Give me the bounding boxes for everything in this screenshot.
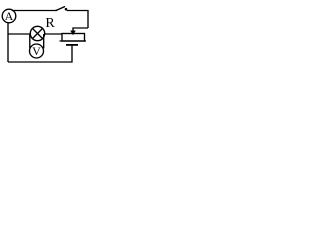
svg-text:R: R	[45, 16, 55, 31]
lamp X diagonals	[32, 28, 42, 38]
svg-text:V: V	[32, 44, 41, 58]
switch pivot dot	[55, 10, 57, 12]
wire: slider feed wire	[73, 28, 88, 31]
wire: bottom wire and battery stub up	[8, 46, 72, 62]
wire: voltmeter left stub	[29, 34, 31, 48]
battery short thick plate	[66, 44, 78, 46]
rheostat slider arrowhead	[70, 31, 76, 36]
wire: lamp left lead	[8, 33, 31, 35]
wire: left vertical wire	[7, 23, 9, 62]
rheostat box	[62, 34, 85, 42]
wire: voltmeter right stub	[43, 34, 45, 48]
wire: top wire from switch to top-right corner, down right edge	[67, 11, 88, 29]
wire: lamp right lead to rheostat	[45, 33, 62, 35]
circuit schematic: ammeter A, lamp/resistor R with voltmeter V in parallel, switch, sliding rheostat, battery	[0, 0, 93, 69]
svg-text:A: A	[5, 9, 14, 23]
voltmeter V circle	[30, 44, 44, 58]
ammeter A circle	[2, 9, 16, 23]
lamp/resistor circle	[30, 26, 44, 40]
switch contact dot	[65, 8, 68, 11]
battery long plate	[60, 40, 87, 42]
switch lever	[56, 7, 65, 11]
wire: top wire from ammeter to switch	[12, 10, 56, 12]
